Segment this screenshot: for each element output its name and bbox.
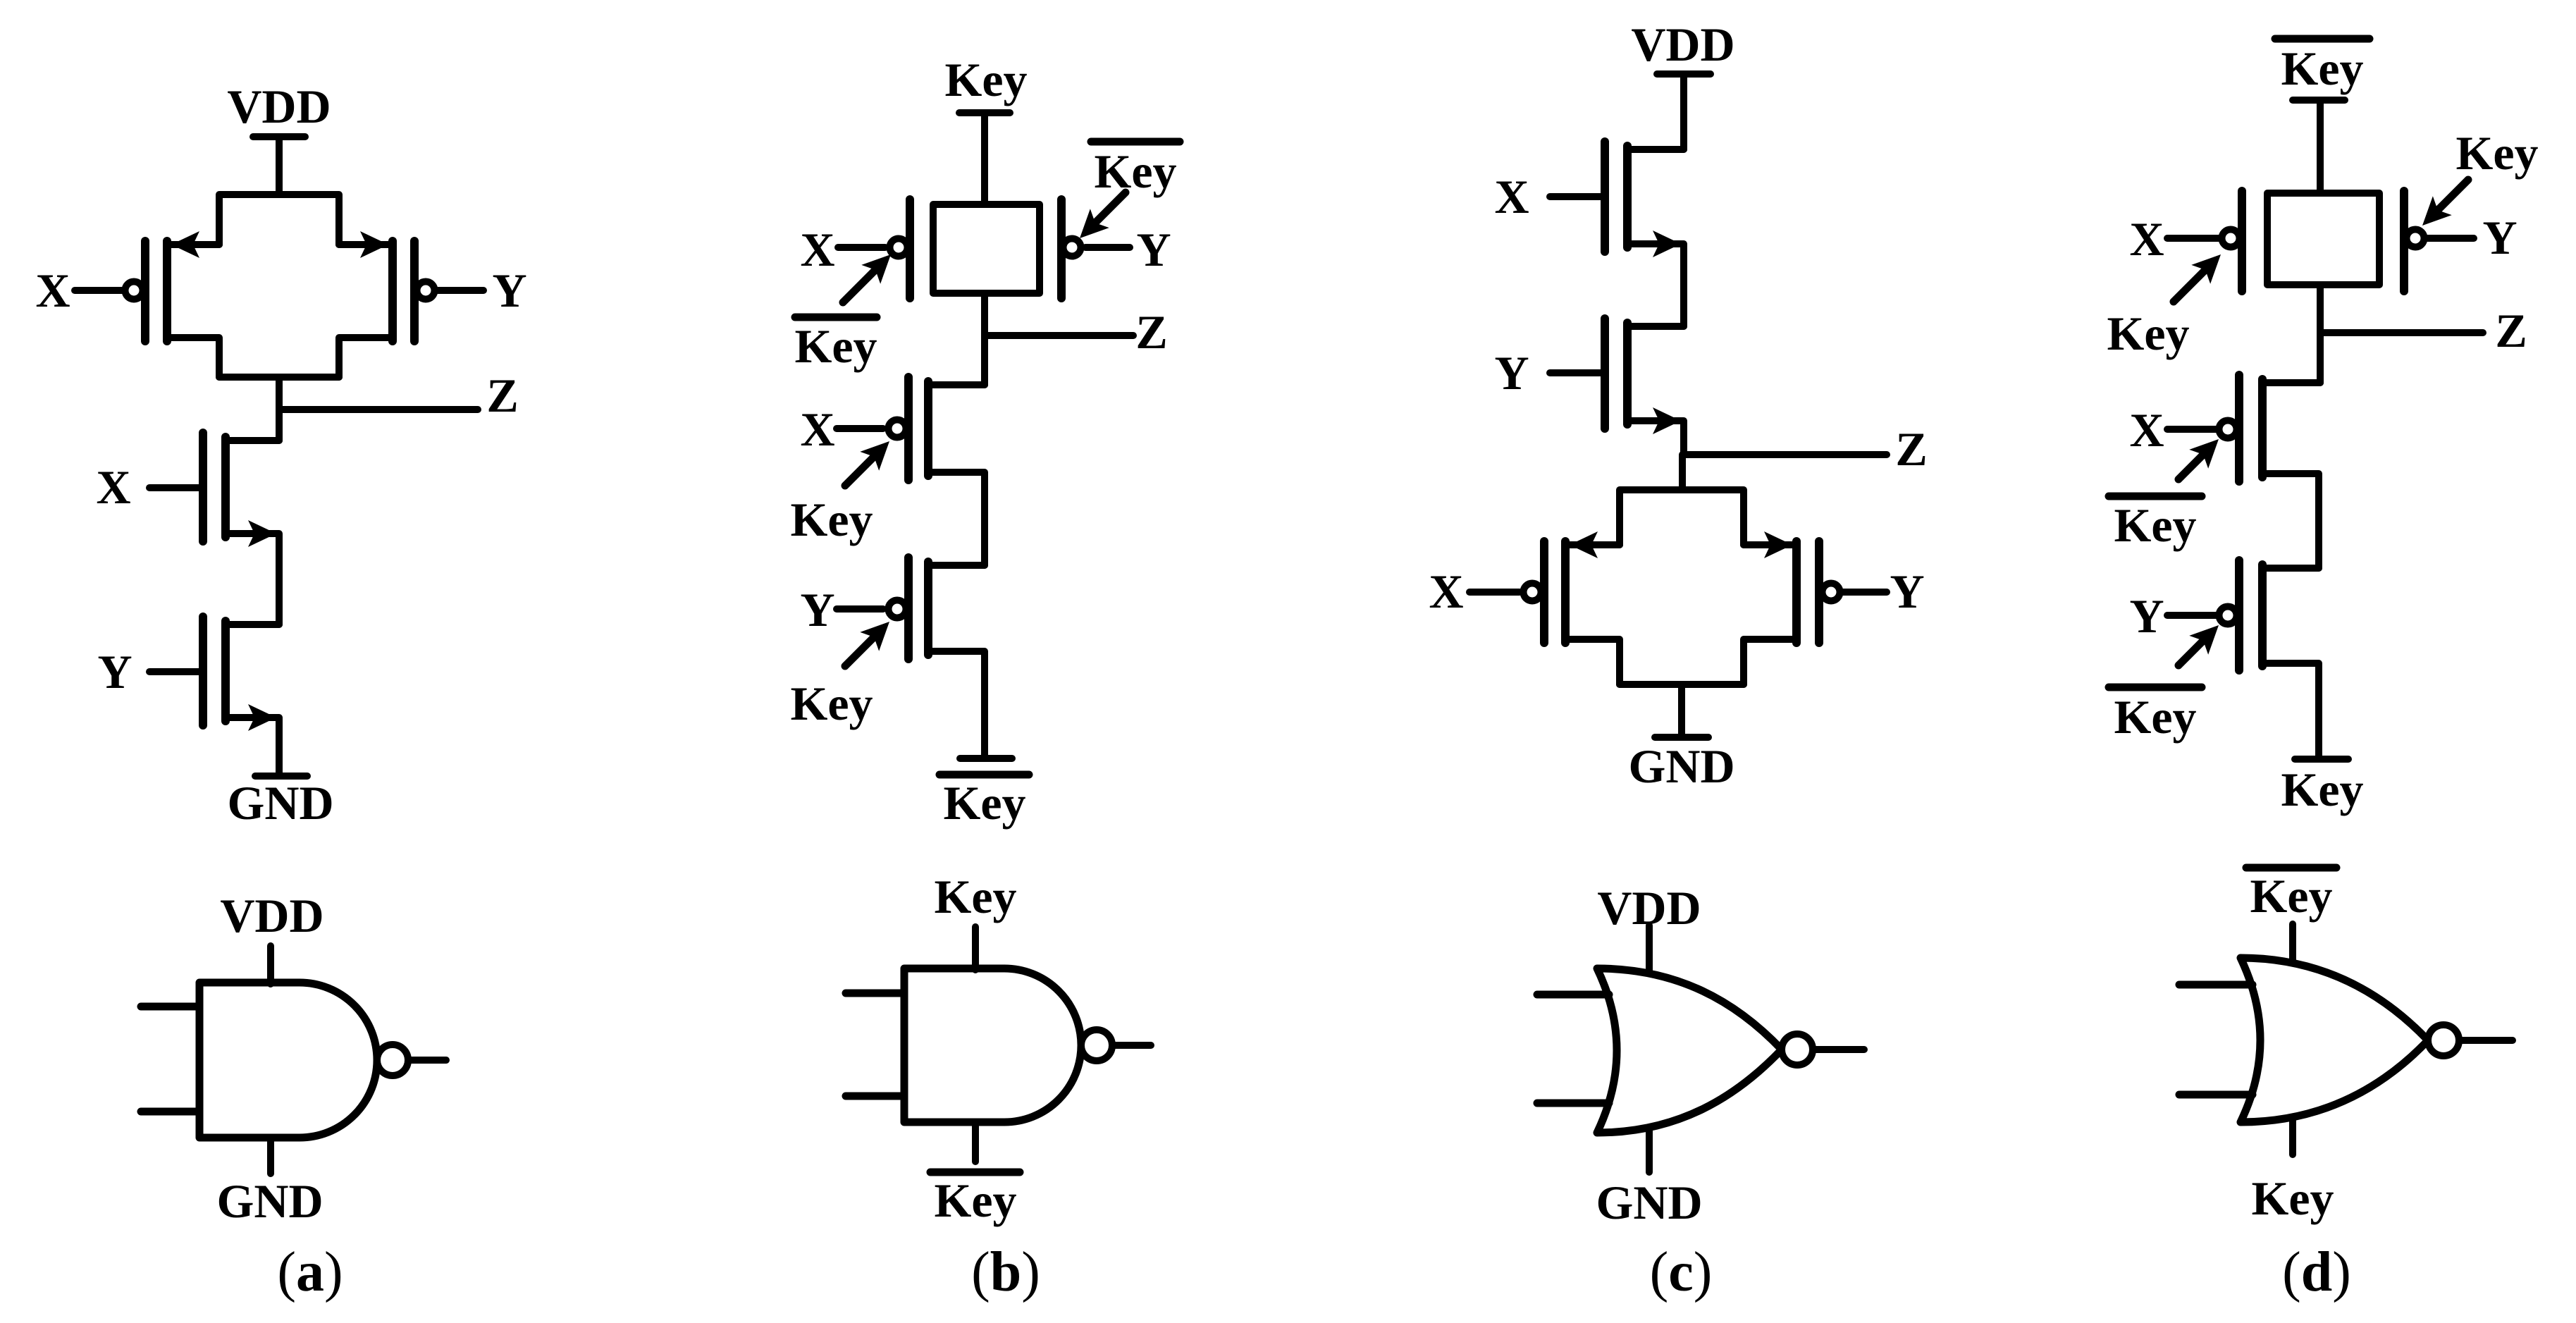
NOR gate U5 output stub bbox=[2459, 1037, 2513, 1044]
left gate bubble (box d) bbox=[2222, 230, 2240, 247]
NAND gate U1 output stub bbox=[408, 1057, 446, 1064]
transistor M4 channel bar (c) bbox=[1792, 541, 1801, 643]
NOR gate U3 output stub bbox=[1813, 1046, 1864, 1053]
wire Z net (c) bbox=[1684, 451, 1887, 458]
transistor M1 channel bar (d) bbox=[2258, 379, 2267, 477]
NOR gate U3 input stub 1 bbox=[1537, 991, 1609, 999]
svg-text:Y: Y bbox=[492, 264, 526, 317]
Key arrow to right box gate (d) bbox=[2438, 180, 2468, 210]
transistor M2 drain lead (c) bbox=[1627, 421, 1684, 455]
svg-text:(b): (b) bbox=[971, 1241, 1040, 1303]
transistor M2 gate bar bbox=[904, 558, 913, 659]
wire supply stem (d) bbox=[2317, 100, 2324, 193]
node Key-bar label (M2 d) overline bbox=[2109, 684, 2202, 691]
svg-text:X: X bbox=[96, 460, 130, 514]
svg-text:Key: Key bbox=[1094, 144, 1176, 198]
Key-bar arrow to left box gate bbox=[843, 271, 875, 302]
NAND gate U2 output bubble bbox=[1081, 1030, 1112, 1061]
svg-text:Y: Y bbox=[2129, 589, 2164, 643]
transistor M1 drain arrow (c) bbox=[1653, 230, 1681, 257]
Key-bar supply bar (bottom) bbox=[960, 755, 1012, 762]
wire input Y to M2 bbox=[837, 605, 883, 613]
wire input X (top) bbox=[838, 244, 885, 251]
transistor M4 bottom lead (c) bbox=[1744, 639, 1797, 684]
wire input Y to M2 (d) bbox=[2167, 612, 2217, 619]
wire stem to M1 bbox=[981, 336, 988, 385]
wire VDD stem (gate) bbox=[267, 946, 274, 984]
transistor M3 source arrow (c) bbox=[1570, 531, 1598, 558]
node Key-bar label (gate top d) overline bbox=[2246, 864, 2336, 872]
svg-text:X: X bbox=[2129, 212, 2164, 266]
transistor M4 NMOS-Y channel bar bbox=[221, 621, 230, 721]
svg-text:Key: Key bbox=[790, 677, 873, 730]
svg-text:Key: Key bbox=[2281, 42, 2363, 95]
VDD supply bar bbox=[253, 133, 305, 140]
svg-text:Key: Key bbox=[2107, 307, 2189, 360]
wire input X to M3 bbox=[149, 484, 199, 491]
node Key-bar label (left) overline bbox=[795, 314, 877, 321]
camouflaged cell box U4 bbox=[2267, 193, 2379, 285]
svg-text:Key: Key bbox=[2455, 126, 2538, 180]
svg-text:(d): (d) bbox=[2282, 1241, 2351, 1303]
NAND gate U2 input stub 2 bbox=[846, 1093, 904, 1100]
NOR gate U3 output bubble bbox=[1782, 1034, 1813, 1065]
transistor M1 PMOS-X source arrow bbox=[171, 231, 199, 258]
transistor M3 NMOS-X channel bar bbox=[221, 437, 230, 537]
wire Z net (b) bbox=[985, 332, 1133, 339]
transistor M4 NMOS-Y source lead bbox=[226, 718, 279, 775]
NAND gate U1 input stub 2 bbox=[141, 1108, 199, 1116]
svg-text:Y: Y bbox=[97, 645, 132, 699]
wire input X to M1 bbox=[837, 425, 883, 432]
wire Key stem bbox=[981, 113, 988, 201]
svg-text:(c): (c) bbox=[1650, 1241, 1713, 1303]
node Key-bar label (top supply d) overline bbox=[2275, 35, 2369, 43]
ground bar (c) bbox=[1655, 734, 1708, 741]
Key-bar arrowhead (M1 gate d) bbox=[2189, 430, 2228, 469]
transistor M1 PMOS-X top lead bbox=[167, 241, 219, 248]
transistor M3 NMOS-X drain lead bbox=[226, 437, 279, 444]
NAND gate U2 input stub 1 bbox=[846, 990, 904, 997]
svg-text:GND: GND bbox=[216, 1174, 323, 1228]
svg-text:Key: Key bbox=[944, 53, 1027, 106]
wire input X to M1 (c) bbox=[1550, 193, 1601, 200]
transistor M2 channel bar bbox=[924, 562, 932, 655]
svg-text:Y: Y bbox=[1494, 346, 1529, 400]
svg-text:X: X bbox=[35, 264, 70, 317]
svg-text:Key: Key bbox=[794, 319, 877, 373]
Key supply bar bbox=[959, 109, 1010, 116]
svg-text:Z: Z bbox=[486, 369, 518, 422]
svg-text:Z: Z bbox=[2495, 304, 2527, 357]
transistor M4 gate bubble (c) bbox=[1823, 584, 1840, 601]
Key supply bar (bottom d) bbox=[2295, 756, 2348, 763]
svg-text:VDD: VDD bbox=[1631, 18, 1734, 71]
svg-text:Z: Z bbox=[1135, 305, 1167, 359]
VDD supply bar (c) bbox=[1657, 70, 1711, 78]
svg-text:Y: Y bbox=[1136, 223, 1171, 276]
Key-bar arrow to M1 gate (d) bbox=[2178, 453, 2205, 479]
transistor M3 NMOS-X source arrow bbox=[248, 520, 276, 547]
transistor M1 source lead (d) bbox=[2262, 474, 2319, 568]
transistor M2 gate bar (d) bbox=[2235, 560, 2243, 670]
svg-text:X: X bbox=[1429, 565, 1463, 618]
NOR gate U5 output bubble bbox=[2428, 1025, 2459, 1056]
svg-text:Key: Key bbox=[2114, 498, 2196, 552]
Key-bar arrow to M2 gate (d) bbox=[2178, 639, 2205, 665]
wire input Y to M2 bbox=[435, 287, 483, 294]
transistor M2 gate bar (c) bbox=[1601, 319, 1609, 429]
svg-text:X: X bbox=[800, 402, 834, 456]
wire output stem bbox=[276, 377, 283, 441]
svg-text:GND: GND bbox=[1596, 1176, 1702, 1229]
left gate bubble (box) bbox=[890, 239, 908, 257]
svg-text:Key: Key bbox=[2250, 869, 2332, 923]
transistor M3 NMOS-X top lead (c) bbox=[1565, 541, 1620, 548]
node Key-bar label (M1 d) overline bbox=[2109, 493, 2202, 500]
wire input Y (top d) bbox=[2424, 235, 2474, 242]
Key arrowhead (right box gate d) bbox=[2413, 196, 2452, 235]
transistor M2 source lead (d) bbox=[2262, 663, 2319, 756]
transistor M4 gate bar (c) bbox=[1815, 541, 1823, 643]
right gate bubble (box) bbox=[1064, 239, 1081, 257]
transistor M1 PMOS-X gate bar bbox=[141, 241, 149, 341]
transistor M4 NMOS-Y drain lead bbox=[226, 621, 279, 628]
wire bottom rail of NMOS pair (c) bbox=[1620, 681, 1744, 688]
wire bottom rail of PMOS pair bbox=[219, 374, 339, 381]
wire input X to M3 (c) bbox=[1469, 589, 1520, 596]
wire Z net bbox=[279, 406, 478, 413]
svg-text:(a): (a) bbox=[277, 1241, 343, 1303]
transistor M3 gate bar (c) bbox=[1540, 541, 1548, 643]
NAND gate U1 input stub 1 bbox=[141, 1003, 199, 1011]
transistor M2 gate bubble (d) bbox=[2219, 607, 2237, 624]
transistor M3 NMOS-X gate bar bbox=[199, 433, 207, 541]
transistor M2 source lead bbox=[928, 651, 985, 756]
transistor M1 source lead (c) bbox=[1627, 146, 1684, 153]
Key arrow to M2 gate bbox=[845, 636, 875, 666]
transistor M2 PMOS-Y channel bar bbox=[388, 241, 397, 341]
Key-bar supply bar (d) bbox=[2293, 97, 2345, 104]
svg-text:Key: Key bbox=[2114, 690, 2196, 744]
NAND gate U1 output bubble bbox=[377, 1045, 408, 1076]
wire GND stem (c) bbox=[1678, 684, 1685, 736]
wire Key stem (gate bottom d) bbox=[2289, 1121, 2296, 1155]
NAND gate U1 body bbox=[199, 983, 377, 1138]
Key arrowhead (M1 gate) bbox=[860, 432, 899, 471]
svg-text:Key: Key bbox=[790, 493, 873, 546]
Key-bar supply bar (gate) bbox=[930, 1169, 1020, 1176]
wire Key stem (gate) bbox=[972, 927, 979, 970]
transistor M2 PMOS-Y source arrow bbox=[360, 231, 388, 258]
transistor M1 gate bubble bbox=[889, 420, 906, 438]
camouflaged cell box U1 bbox=[933, 204, 1040, 293]
transistor M2 gate bubble bbox=[889, 601, 906, 618]
wire VDD stem (c) bbox=[1680, 74, 1687, 149]
Key-bar arrow to right box gate bbox=[1095, 192, 1126, 223]
transistor M1 source lead bbox=[928, 472, 985, 565]
svg-text:X: X bbox=[1494, 170, 1529, 223]
right gate bubble (box d) bbox=[2407, 230, 2424, 247]
transistor right gate bar (Y / Key d) bbox=[2400, 191, 2408, 291]
transistor M1 gate bubble bbox=[125, 282, 143, 300]
transistor M4 NMOS-Y source arrow bbox=[248, 704, 276, 731]
transistor M1 drain lead (c) bbox=[1627, 244, 1684, 326]
transistor M2 drain lead bbox=[928, 562, 985, 569]
transistor M2 channel bar (c) bbox=[1623, 323, 1632, 424]
transistor M4 NMOS-Y gate bar bbox=[199, 617, 207, 725]
NOR gate U5 input stub 1 bbox=[2179, 981, 2253, 989]
transistor left gate bar (X / Key d) bbox=[2238, 191, 2246, 291]
svg-text:Key: Key bbox=[943, 776, 1025, 830]
transistor M2 PMOS-Y top lead bbox=[339, 241, 393, 248]
Key arrow to left box gate (d) bbox=[2174, 271, 2205, 302]
transistor M1 gate bar (c) bbox=[1601, 142, 1609, 252]
wire Key-bar stem (gate d) bbox=[2289, 924, 2296, 961]
svg-text:GND: GND bbox=[227, 776, 333, 830]
transistor M3 bottom lead (c) bbox=[1565, 639, 1620, 684]
wire input Y to M4 (c) bbox=[1842, 589, 1887, 596]
node Key-bar label (top right) overline bbox=[1091, 138, 1180, 146]
transistor M2 gate bubble bbox=[417, 282, 435, 300]
node Key-bar label (bottom) overline bbox=[939, 771, 1029, 779]
Key-bar arrowhead (right box gate) bbox=[1071, 209, 1109, 247]
transistor right gate bar (Y / Key-bar) bbox=[1057, 199, 1066, 298]
NAND gate U2 body bbox=[904, 968, 1081, 1122]
transistor M3 channel bar (c) bbox=[1561, 541, 1570, 643]
transistor M3 gate bubble (c) bbox=[1524, 584, 1541, 601]
wire top rail of PMOS pair bbox=[219, 195, 339, 245]
svg-text:VDD: VDD bbox=[227, 80, 331, 133]
svg-text:GND: GND bbox=[1628, 739, 1734, 793]
NOR gate U3 input stub 2 bbox=[1537, 1100, 1609, 1107]
wire stem to NMOS pair (c) bbox=[1679, 455, 1686, 490]
wire input X (top d) bbox=[2167, 235, 2219, 242]
svg-text:Z: Z bbox=[1895, 422, 1927, 476]
NOR gate U5 body bbox=[2241, 958, 2428, 1122]
transistor M1 gate bubble (d) bbox=[2219, 421, 2237, 438]
wire input Y to M2 (c) bbox=[1550, 369, 1601, 376]
Key-bar arrowhead (left box gate) bbox=[861, 245, 900, 284]
transistor M4 NMOS-Y top lead (c) bbox=[1744, 541, 1797, 548]
NOR gate U5 input stub 2 bbox=[2179, 1091, 2253, 1099]
wire VDD stem (gate c) bbox=[1646, 925, 1653, 971]
transistor M2 PMOS-Y gate bar bbox=[410, 241, 419, 341]
transistor M1 drain lead bbox=[928, 381, 985, 388]
NOR gate U3 body bbox=[1597, 968, 1782, 1133]
transistor M2 source lead (c) bbox=[1627, 323, 1684, 330]
transistor left gate bar (X / Key-bar) bbox=[906, 199, 914, 298]
transistor M2 drain arrow (c) bbox=[1653, 407, 1681, 434]
wire box output stem bbox=[981, 293, 988, 336]
wire Z net (d) bbox=[2320, 329, 2483, 336]
svg-text:VDD: VDD bbox=[220, 889, 323, 942]
svg-text:Key: Key bbox=[934, 1174, 1016, 1227]
transistor M4 source arrow (c) bbox=[1764, 531, 1792, 558]
wire GND stem (gate) bbox=[267, 1138, 274, 1174]
transistor M1 channel bar (c) bbox=[1623, 146, 1632, 247]
transistor M2 drain lead (d) bbox=[2262, 565, 2319, 572]
transistor M2 PMOS-Y bottom lead bbox=[339, 338, 393, 377]
wire top rail of NMOS pair (c) bbox=[1620, 490, 1744, 545]
ground bar bbox=[255, 773, 307, 780]
wire input X to M1 bbox=[75, 287, 125, 294]
Key-bar arrowhead (M2 gate d) bbox=[2189, 616, 2228, 655]
wire GND stem (gate c) bbox=[1646, 1129, 1653, 1172]
svg-text:Key: Key bbox=[2281, 763, 2363, 816]
transistor M1 PMOS-X channel bar bbox=[163, 241, 171, 341]
Key arrowhead (M2 gate) bbox=[860, 613, 899, 651]
transistor M1 channel bar bbox=[924, 381, 932, 476]
wire Key-bar stem (gate bottom) bbox=[972, 1122, 979, 1162]
svg-text:Y: Y bbox=[2482, 211, 2517, 264]
transistor M3 NMOS-X source lead bbox=[226, 534, 279, 624]
svg-text:X: X bbox=[800, 223, 834, 276]
wire input X to M1 (d) bbox=[2167, 426, 2217, 433]
transistor M1 PMOS-X bottom lead bbox=[167, 338, 219, 377]
Key arrow to M1 gate bbox=[845, 455, 875, 486]
wire box output stem (d) bbox=[2317, 285, 2324, 333]
wire stem to M1 (d) bbox=[2317, 333, 2324, 383]
svg-text:Y: Y bbox=[1890, 565, 1924, 618]
svg-text:Key: Key bbox=[934, 870, 1016, 923]
wire VDD stem bbox=[276, 137, 283, 195]
Key arrowhead (left box gate d) bbox=[2191, 245, 2230, 284]
svg-text:Y: Y bbox=[800, 583, 834, 636]
svg-text:X: X bbox=[2129, 403, 2164, 457]
svg-text:Key: Key bbox=[2251, 1171, 2334, 1225]
transistor M2 channel bar (d) bbox=[2258, 565, 2267, 666]
transistor M1 gate bar bbox=[904, 377, 913, 480]
transistor M1 gate bar (d) bbox=[2235, 375, 2243, 481]
wire input Y (top) bbox=[1085, 244, 1130, 251]
NAND gate U2 output stub bbox=[1112, 1042, 1151, 1049]
transistor M1 drain lead (d) bbox=[2262, 379, 2320, 386]
wire input Y to M4 bbox=[149, 668, 199, 675]
